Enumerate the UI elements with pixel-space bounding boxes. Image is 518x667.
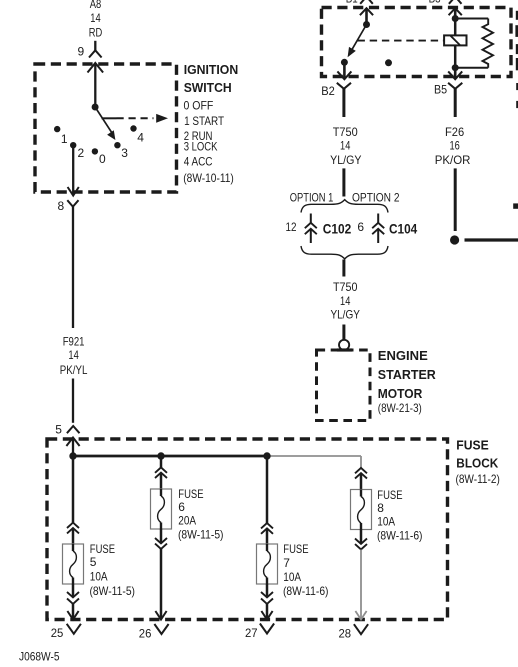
wire terminal 8 to F921 label: [72, 207, 74, 328]
fuse block box: [47, 439, 448, 620]
wire fuse 6 to terminal 26: [155, 529, 166, 620]
svg-text:0 OFF: 0 OFF: [184, 98, 214, 112]
switch position 4: [130, 125, 144, 144]
label FUSE 7 10A: [283, 542, 329, 598]
label IGNITION SWITCH: [184, 62, 239, 95]
svg-text:26: 26: [139, 627, 152, 641]
wire fuse 8 to terminal 28 (gray): [355, 550, 366, 620]
svg-text:25: 25: [51, 626, 64, 640]
option top brace: [301, 200, 388, 213]
svg-text:14: 14: [340, 294, 351, 308]
connector 9: [78, 45, 102, 59]
fuse F8: [351, 490, 372, 530]
svg-text:FUSE: FUSE: [178, 487, 203, 501]
label OPTION 1: [290, 191, 334, 205]
connector C102 pin 12: [286, 214, 352, 244]
svg-text:12: 12: [286, 220, 297, 234]
connector terminal 28: [339, 624, 369, 640]
svg-text:4: 4: [137, 130, 144, 144]
relay coil: [444, 35, 466, 45]
key-turn dashed arrow: [102, 114, 169, 123]
svg-text:(8W-11-5): (8W-11-5): [90, 584, 136, 598]
label FUSE 6 20A: [178, 487, 224, 541]
svg-text:C102: C102: [323, 220, 352, 236]
wire F921 to fuse block: [72, 379, 74, 423]
svg-text:C104: C104: [389, 220, 417, 236]
wire YL/GY to option brace: [342, 168, 345, 196]
wire contact to terminal B2 exit arrow: [337, 62, 351, 79]
junction node F26: [450, 235, 459, 244]
svg-text:(8W-11-6): (8W-11-6): [283, 584, 329, 598]
svg-text:(8W-11-5): (8W-11-5): [178, 527, 224, 541]
connector chevrons above fuse 8: [355, 468, 367, 490]
wire label F921 14 PK/YL: [60, 335, 88, 378]
svg-text:YL/GY: YL/GY: [330, 307, 360, 321]
svg-text:B1: B1: [346, 0, 358, 6]
wire coil to terminal B5 exit arrow: [448, 68, 462, 80]
fuse F5: [63, 544, 84, 584]
wire bus to fuse 6: [160, 456, 163, 489]
diagram number J068W-5: [19, 650, 60, 664]
svg-text:(8W-10-11): (8W-10-11): [183, 171, 234, 185]
junction node at fuse 6 branch: [157, 452, 164, 459]
svg-text:14: 14: [68, 348, 79, 362]
wire label T750 14 YL/GY: [330, 125, 361, 167]
svg-text:1 START: 1 START: [184, 114, 225, 128]
wire label F26 16 PK/OR: [435, 125, 471, 167]
wire to engine starter motor: [342, 325, 345, 341]
svg-text:B3: B3: [429, 0, 441, 6]
relay switch arm: [348, 25, 367, 58]
wire brace to T750 lower label: [342, 260, 345, 277]
label FUSE BLOCK: [456, 438, 500, 486]
switch arm toward position 3: [95, 107, 115, 140]
bus wire gray segment: [267, 455, 361, 457]
wire B2 to T750 label: [342, 89, 345, 117]
fuse F7: [257, 544, 278, 584]
wire coil branch: [454, 19, 457, 68]
wire fuse 7 to terminal 27: [261, 584, 272, 620]
fuse block entry arrow terminal 5: [66, 438, 79, 457]
svg-text:J068W-5: J068W-5: [19, 650, 60, 664]
svg-text:B5: B5: [434, 83, 447, 97]
svg-text:14: 14: [340, 138, 351, 152]
switch position 3: [114, 142, 128, 160]
svg-text:27: 27: [245, 626, 258, 640]
relay switch lower contact: [341, 59, 348, 66]
svg-text:5: 5: [90, 555, 97, 569]
connector terminal 27: [245, 624, 274, 640]
switch position 2: [70, 142, 85, 160]
label FUSE 8 10A: [377, 488, 423, 543]
svg-text:T750: T750: [333, 280, 358, 294]
svg-text:6: 6: [357, 220, 364, 234]
svg-text:RD: RD: [89, 26, 103, 40]
connector chevrons below fuse 7: [261, 592, 273, 604]
node coil top: [452, 15, 459, 22]
connector 5: [55, 422, 79, 436]
svg-text:5: 5: [55, 422, 62, 436]
svg-text:(8W-11-2): (8W-11-2): [456, 472, 500, 486]
svg-text:3 LOCK: 3 LOCK: [184, 140, 218, 154]
relay linkage dashed line: [358, 40, 444, 42]
wire position 2 to terminal 8: [68, 145, 79, 195]
starter relay box: [322, 8, 512, 77]
connector terminal 25: [51, 624, 81, 640]
svg-text:OPTION 1: OPTION 1: [290, 191, 334, 205]
relay switch upper contact: [363, 21, 370, 28]
terminal B1 label (clipped at top): [346, 0, 462, 6]
svg-text:PK/OR: PK/OR: [435, 153, 471, 167]
connector B5: [434, 83, 462, 97]
svg-text:0: 0: [99, 152, 106, 166]
svg-text:MOTOR: MOTOR: [378, 386, 423, 401]
connector terminal 26: [139, 624, 169, 641]
engine starter motor box: [317, 350, 371, 421]
label ENGINE STARTER MOTOR: [378, 348, 437, 415]
wire junction to right edge: [465, 238, 518, 241]
svg-text:1: 1: [61, 132, 68, 146]
svg-text:20A: 20A: [178, 514, 196, 528]
terminal 9 entry arrow: [88, 63, 104, 73]
connector chevrons above fuse 6: [155, 467, 167, 478]
svg-text:FUSE: FUSE: [377, 488, 402, 502]
relay terminal B1 entry arrow: [360, 8, 373, 15]
ignition switch box: [35, 64, 177, 192]
wire from A8 to connector 9: [94, 41, 96, 51]
bus wire: [73, 455, 267, 458]
node coil bottom: [452, 64, 459, 71]
clipped wire stub at right edge: [513, 203, 518, 208]
svg-text:F26: F26: [445, 125, 464, 139]
svg-text:B2: B2: [321, 84, 335, 98]
svg-text:PK/YL: PK/YL: [60, 363, 88, 377]
wire B5 to F26 label: [454, 89, 457, 117]
svg-text:FUSE: FUSE: [456, 438, 489, 453]
svg-text:(8W-11-6): (8W-11-6): [377, 528, 423, 542]
switch position legend: [183, 98, 234, 185]
svg-text:8: 8: [377, 501, 384, 515]
relay spare contact: [385, 59, 392, 66]
connector chevrons above fuse 7: [261, 523, 273, 534]
connector chevrons below fuse 8: [355, 530, 367, 550]
svg-text:FUSE: FUSE: [90, 542, 115, 556]
svg-text:7: 7: [283, 556, 290, 570]
fuse F6: [151, 489, 172, 529]
svg-text:28: 28: [339, 627, 352, 641]
svg-text:(8W-21-3): (8W-21-3): [378, 401, 422, 415]
svg-text:9: 9: [78, 45, 85, 59]
svg-text:IGNITION: IGNITION: [184, 62, 239, 77]
relay terminal B3 entry arrow: [449, 8, 462, 15]
wire PK/OR down to junction: [454, 168, 457, 231]
connector C104 pin 6: [357, 214, 417, 244]
svg-text:T750: T750: [333, 125, 358, 139]
wire bus to fuse 8 (gray): [360, 456, 362, 468]
svg-text:10A: 10A: [283, 570, 301, 584]
switch position 0: [92, 148, 106, 166]
wire label T750 14 YL/GY lower: [330, 280, 360, 321]
junction node at fuse 7 branch: [263, 452, 270, 459]
svg-text:16: 16: [449, 138, 460, 152]
svg-text:A8: A8: [90, 0, 102, 11]
svg-text:2: 2: [78, 146, 85, 160]
svg-text:F921: F921: [63, 335, 85, 349]
svg-text:SWITCH: SWITCH: [184, 80, 232, 95]
wire B1 to relay switch: [365, 8, 368, 24]
label OPTION 2: [352, 191, 400, 205]
svg-text:FUSE: FUSE: [283, 542, 308, 556]
svg-text:6: 6: [178, 500, 185, 514]
option bottom brace: [301, 246, 388, 259]
svg-text:10A: 10A: [377, 514, 395, 528]
connector B2: [321, 83, 351, 98]
starter motor terminal ring: [337, 340, 352, 350]
wire bus to fuse 5: [72, 456, 75, 544]
switch pivot: [92, 104, 99, 111]
svg-text:4 ACC: 4 ACC: [184, 154, 213, 168]
svg-text:OPTION 2: OPTION 2: [352, 191, 400, 205]
svg-text:BLOCK: BLOCK: [456, 456, 499, 471]
svg-text:STARTER: STARTER: [378, 367, 437, 382]
connector chevrons below fuse 5: [67, 592, 79, 604]
wire to switch pivot: [94, 63, 96, 107]
connector 8: [58, 199, 79, 213]
wire B3 down to coil node: [454, 8, 457, 18]
switch position 1: [54, 126, 68, 146]
junction node at fuse 5 branch: [69, 452, 76, 459]
resistor (relay): [455, 19, 493, 68]
svg-text:YL/GY: YL/GY: [330, 153, 361, 167]
svg-text:8: 8: [58, 199, 65, 213]
wire bus to fuse 7: [266, 456, 269, 544]
label FUSE 5 10A: [90, 542, 136, 598]
clipped label right of relay box: [515, 11, 518, 108]
wire fuse 5 to terminal 25: [67, 584, 78, 620]
svg-text:ENGINE: ENGINE: [378, 348, 428, 363]
svg-text:3: 3: [121, 146, 128, 160]
svg-text:14: 14: [90, 11, 101, 25]
connector chevrons below fuse 6: [155, 538, 167, 549]
wire label A8 14 RD: [89, 0, 103, 40]
svg-text:10A: 10A: [90, 570, 108, 584]
connector chevrons above fuse 5: [67, 523, 79, 534]
